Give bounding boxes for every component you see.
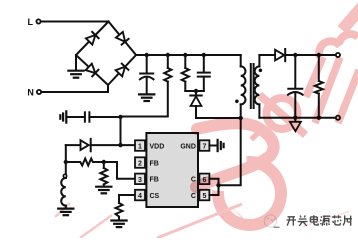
pin 2 box [135,157,145,168]
ground bridge [68,71,83,78]
wire to pin3 [104,162,135,179]
开 [287,217,297,226]
pin 1 box [135,140,145,151]
ground pin7 rotated right [218,140,224,151]
ground L1 [58,209,73,216]
resistor R1 startup [121,55,172,117]
wire N to bridge bottom [42,85,109,92]
resistor R5 clamp [182,55,189,91]
diode D7 snubber [190,91,240,118]
ground R4 [111,221,126,228]
node aux junction [64,160,68,164]
wire secondary top to diode [259,54,274,56]
capacitor C4 output [288,55,303,118]
node bus junctions [145,53,207,57]
diode D2 bridge top-right [116,32,129,45]
svg-text:7: 7 [202,144,206,151]
watermark letter e [250,95,306,142]
node clamp junction [194,89,198,93]
svg-text:FB: FB [150,160,159,167]
wire junction down to vdd row [120,117,122,145]
primary polarity dot [235,100,239,104]
diode D5 output [275,49,336,61]
wire pins 6 and 5 tie [209,179,218,195]
watermark letter S [196,123,274,187]
capacitor C3 vdd [67,112,120,121]
secondary polarity dot [259,69,263,73]
diode D1 bridge top-left [86,32,99,45]
ground R3 [96,187,111,194]
svg-text:1: 1 [138,144,142,151]
node L terminal [28,17,41,27]
wire DC bus [136,54,241,56]
ground C1 [139,94,154,101]
wire pin4 to R4 [119,195,135,203]
node drain junction [216,183,220,187]
芯 [332,215,341,225]
transformer core [251,64,254,108]
node vdd junction [118,115,122,119]
bridge rectifier frame [76,22,136,86]
svg-text:GND: GND [180,143,196,150]
watermark stroke a [55,203,70,217]
diode D6 aux rectifier [66,139,135,151]
pin 3 box [135,174,145,185]
resistor R3 fb divider [100,162,107,187]
node R2 right junction [102,160,106,164]
pin 5 box [199,190,209,201]
wire L to bridge top [41,21,109,23]
svg-text:CS: CS [150,193,160,200]
wire drain to transformer [219,118,241,185]
svg-text:FB: FB [150,177,159,184]
node vdd diode junction [118,143,122,147]
ground output triangle [290,118,301,132]
watermark stroke d [303,212,349,227]
电 [310,215,318,225]
watermark letter m [306,34,358,123]
svg-text:N: N [27,87,34,97]
watermark swoosh [209,162,281,228]
wire aux left drop [65,145,67,162]
capacitor C1 bulk [140,55,154,94]
logo bottom-right [264,215,279,228]
transformer T1 primary [241,55,246,118]
svg-text:L: L [28,17,34,27]
wire bridge left vertex down [75,55,77,71]
pin 6 box [199,174,209,185]
transformer T1 secondary [255,55,260,118]
wire clamp bottom [185,90,204,92]
watermark stroke b [80,215,112,238]
wire pin7 to ground [209,145,217,147]
watermark corner stroke [342,0,358,30]
ground vdd rotated left [60,111,66,122]
关 [298,215,308,225]
diode D4 bridge bottom-right [116,64,129,77]
pin 4 box [135,190,145,201]
node output + terminal [336,53,340,57]
pin 7 box [199,140,209,151]
svg-text:C: C [191,193,196,200]
diode D3 bridge bottom-left [86,64,99,77]
svg-text:3: 3 [138,177,142,184]
wire secondary bottom rail [259,117,335,119]
node output - terminal [336,116,340,120]
resistor R2 horizontal [66,159,104,166]
resistor R4 cs sense [116,203,123,220]
源 [320,216,330,226]
logo text 开关电源芯片 (vector strokes) [287,215,352,226]
svg-text:VDD: VDD [150,143,165,150]
inductor L1 aux winding [61,164,67,208]
svg-text:5: 5 [202,193,206,200]
resistor R6 load [315,55,323,118]
capacitor C2 clamp [198,55,210,91]
node primary bottom junction [239,116,243,120]
片 [343,215,352,225]
node N terminal [27,87,41,97]
node output junctions [293,53,321,120]
watermark stroke c [157,204,242,238]
op-amp U1 body [146,133,198,207]
svg-text:4: 4 [138,193,142,200]
svg-text:2: 2 [138,161,142,168]
